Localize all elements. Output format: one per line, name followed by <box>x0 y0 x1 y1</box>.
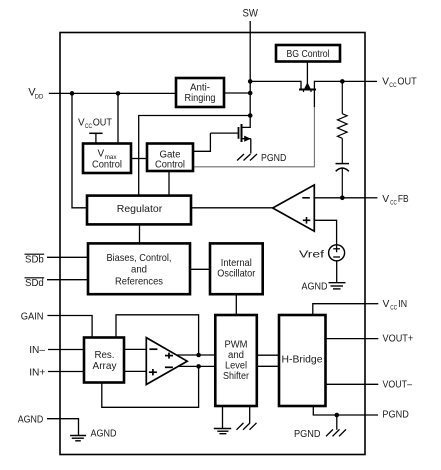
wire resistor to capacitor <box>341 138 343 163</box>
svg-text:V: V <box>382 76 389 88</box>
junction dot SW/NMOS drain <box>248 113 253 118</box>
svg-text:AGND: AGND <box>18 414 44 426</box>
wire Anti-Ringing to SW node <box>224 92 250 94</box>
wire VDD <box>49 92 176 94</box>
wire SW node to PMOS left terminal <box>250 80 301 82</box>
svg-text:PGND: PGND <box>382 409 409 421</box>
transistor Q1 (PMOS rectifier) <box>299 62 316 108</box>
junction dot VccOUT/divider <box>340 79 345 84</box>
wire Internal Oscillator to PWM <box>235 294 237 315</box>
svg-text:Control: Control <box>92 160 122 171</box>
block Gate Control <box>147 144 193 172</box>
block Res. Array <box>84 338 124 383</box>
pin VccFB label <box>382 193 408 207</box>
block Internal Oscillator <box>210 243 263 294</box>
svg-text:and: and <box>228 350 244 361</box>
svg-text:Res.: Res. <box>95 350 115 361</box>
pin SDd <box>25 278 89 289</box>
svg-text:AGND: AGND <box>91 428 117 440</box>
svg-text:Array: Array <box>93 361 118 372</box>
op-amp U1 (boost error comparator, points left) <box>273 185 315 231</box>
wire feedback bottom <box>102 366 199 407</box>
wire VOUT- <box>326 383 379 385</box>
svg-text:Level: Level <box>225 361 247 372</box>
pin IN+ <box>29 366 83 378</box>
wire Regulator to Biases <box>139 224 141 243</box>
wire NMOS drain node to regulator branch <box>139 116 251 196</box>
svg-text:References: References <box>115 276 163 287</box>
ground AGND (bottom-left) <box>70 436 86 441</box>
svg-text:IN–: IN– <box>29 344 45 356</box>
wire Biases to Internal Oscillator <box>190 268 210 270</box>
svg-text:PWM: PWM <box>225 340 248 351</box>
junction dot amp output minus <box>196 364 201 369</box>
wire SW <box>249 21 251 116</box>
capacitor C1 (feedback divider) <box>336 164 350 172</box>
wire VDD to Regulator <box>72 93 87 207</box>
wire comparator output to Regulator <box>191 207 273 209</box>
svg-text:Shifter: Shifter <box>223 371 250 382</box>
svg-text:PGND: PGND <box>261 152 287 164</box>
ground PGND (PWM) hatch <box>237 406 257 430</box>
wires PWM to H-Bridge <box>257 354 279 356</box>
svg-text:Biases, Control,: Biases, Control, <box>107 253 172 264</box>
wire Gate Control sense to PMOS (grey) <box>193 107 314 167</box>
block Anti-Ringing <box>176 78 224 107</box>
svg-text:V: V <box>78 117 85 129</box>
svg-text:OUT: OUT <box>93 117 113 129</box>
wire Vmax Control to Gate Control <box>131 158 147 160</box>
wire H-Bridge to PGND pin <box>313 406 378 415</box>
wires amp outputs to PWM <box>177 354 216 356</box>
ground AGND (PWM) <box>214 406 231 434</box>
svg-text:Ringing: Ringing <box>185 93 216 104</box>
wire VccIN to H-Bridge <box>313 304 365 315</box>
svg-text:H-Bridge: H-Bridge <box>282 355 323 366</box>
svg-text:OUT: OUT <box>397 76 417 88</box>
svg-text:Control: Control <box>155 160 185 171</box>
pin IN- <box>29 344 83 356</box>
svg-text:VOUT–: VOUT– <box>383 379 413 391</box>
wire comparator plus input to Vref <box>314 220 336 245</box>
junction dot PGND <box>335 413 340 418</box>
junction dot amp output plus <box>196 353 201 358</box>
svg-text:V: V <box>98 149 105 160</box>
junction dot VDD-regulator branch <box>70 91 75 96</box>
svg-text:PGND: PGND <box>294 428 321 440</box>
wire Vref to AGND <box>336 261 338 283</box>
svg-text:SDb: SDb <box>25 255 44 266</box>
svg-text:GAIN: GAIN <box>21 310 44 322</box>
pin VccOUT stub <box>365 80 377 82</box>
resistor R1 (feedback divider) <box>337 114 347 139</box>
block H-Bridge <box>279 315 326 406</box>
svg-text:Internal: Internal <box>221 258 252 269</box>
block Regulator <box>87 196 191 225</box>
wire feedback top (Res Array to outputs) <box>116 315 199 355</box>
wire capacitor to VccFB node <box>341 168 343 198</box>
outer boundary box <box>60 33 365 455</box>
svg-text:DD: DD <box>35 94 44 101</box>
junction dot VDD-Vmax branch <box>116 91 121 96</box>
svg-text:and: and <box>131 265 147 276</box>
ground PGND hatch (NMOS source) <box>237 154 257 161</box>
pin GAIN <box>21 310 92 337</box>
svg-text:CC: CC <box>85 123 93 130</box>
ground PGND (H-Bridge) hatch <box>326 415 346 436</box>
svg-text:SDd: SDd <box>25 278 44 289</box>
svg-text:BG Control: BG Control <box>287 49 330 60</box>
wire comparator minus input to VccFB <box>314 197 365 199</box>
svg-text:FB: FB <box>398 193 409 205</box>
pin VccOUT label <box>382 76 417 90</box>
pin VccIN label <box>383 298 408 312</box>
svg-text:Anti-: Anti- <box>190 83 210 94</box>
block PWM and Level Shifter <box>215 315 256 406</box>
svg-text:IN: IN <box>398 298 407 310</box>
wire Gate Control to Regulator <box>168 171 170 195</box>
block Biases, Control, and References <box>88 243 190 294</box>
transistor Q2 (NMOS low-side) <box>193 116 251 154</box>
wire PMOS right terminal to VccOUT node <box>314 80 365 82</box>
pin VccIN stub <box>365 303 378 305</box>
pin SDb <box>25 254 89 265</box>
wires amp inputs <box>124 348 146 350</box>
svg-text:Oscillator: Oscillator <box>217 268 256 279</box>
svg-text:CC: CC <box>390 304 397 311</box>
pin VccOUT internal terminal symbol <box>89 133 102 143</box>
pin VDD label <box>28 87 43 101</box>
pin AGND (left) <box>18 414 79 436</box>
junction dot VccFB node <box>340 196 345 201</box>
junction dot SW/Anti-Ringing <box>248 91 253 96</box>
svg-text:V: V <box>383 298 390 310</box>
svg-text:SW: SW <box>243 8 259 20</box>
block BG Control <box>276 45 340 62</box>
wire VccOUT node down to resistor <box>341 81 343 113</box>
label VccOUT internal <box>78 117 113 131</box>
op-amp U2 (differential amp) <box>146 338 187 385</box>
svg-text:IN+: IN+ <box>29 366 45 378</box>
svg-text:CC: CC <box>389 82 397 89</box>
ground AGND (Vref) <box>329 283 346 289</box>
svg-text:VOUT+: VOUT+ <box>383 333 414 345</box>
wire VDD to Vmax Control <box>117 93 119 143</box>
voltage source Vref <box>329 245 345 261</box>
svg-text:CC: CC <box>390 199 397 206</box>
block Vmax Control <box>83 144 131 174</box>
svg-text:Vref: Vref <box>299 248 324 260</box>
svg-text:AGND: AGND <box>302 281 328 293</box>
pin VccFB stub <box>365 197 377 199</box>
wire VOUT+ <box>326 338 379 340</box>
svg-text:Regulator: Regulator <box>117 204 163 215</box>
svg-text:V: V <box>382 193 389 205</box>
junction dot SW/PMOS <box>248 79 253 84</box>
